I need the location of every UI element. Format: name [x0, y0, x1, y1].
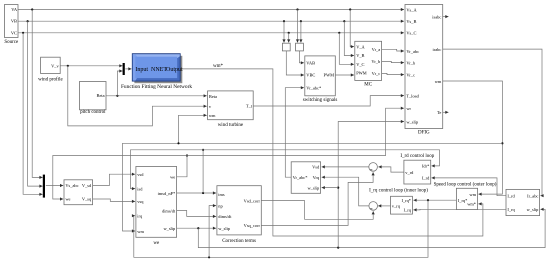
svg-text:Vr_c: Vr_c — [406, 72, 415, 77]
wire wm* reference from NNET Output down and across to speed loop control wm* input — [182, 69, 483, 236]
wire wm long feedback line to we-block wm input — [123, 143, 503, 231]
op sum junction d-axis — [369, 163, 378, 172]
wire we long line left down to Vs_abc dq block we input — [53, 156, 187, 200]
wire VA down to MC input V_A — [350, 10, 354, 47]
mux source voltages for dq transform — [43, 175, 45, 198]
svg-text:Vr_abc: Vr_abc — [406, 49, 419, 54]
svg-text:I_rq: I_rq — [404, 208, 412, 213]
svg-text:Vr_abc*: Vr_abc* — [306, 85, 321, 90]
wire VBC measure block output to switching signals VBC input — [286, 51, 304, 75]
svg-text:Vsd_corr: Vsd_corr — [244, 198, 261, 203]
wire VAB measure block output to switching signals VAB input — [299, 51, 304, 63]
svg-text:T_t: T_t — [246, 104, 253, 109]
wire isabc output stub of DFIG — [443, 16, 449, 18]
svg-text:I_rq*: I_rq* — [458, 198, 468, 203]
svg-text:dims/dt: dims/dt — [218, 214, 232, 219]
svg-text:Vs_B: Vs_B — [406, 19, 416, 24]
svg-text:Vr_c: Vr_c — [372, 71, 381, 76]
svg-text:VAB: VAB — [306, 61, 315, 66]
block VBC line voltage measure — [282, 43, 290, 51]
svg-text:w_slip: w_slip — [163, 226, 176, 231]
svg-text:Beta: Beta — [97, 93, 105, 98]
svg-text:wm*: wm* — [467, 202, 476, 207]
block speed loop controller (mirrored) — [456, 188, 477, 209]
node junction w_slip branch down — [197, 227, 199, 229]
svg-text:V_sd: V_sd — [82, 183, 92, 188]
svg-text:vsd: vsd — [137, 172, 144, 177]
wire wind speed v branch around pitch control to wind turbine v input — [68, 66, 207, 126]
wire Te output stub of DFIG — [443, 111, 449, 113]
block we computation (flux and slip estimator) — [136, 167, 177, 247]
svg-text:Idr*: Idr* — [422, 164, 429, 169]
svg-text:vsq: vsq — [137, 199, 144, 204]
svg-text:pitch control: pitch control — [80, 110, 106, 115]
svg-text:wind profile: wind profile — [38, 77, 63, 82]
node junction wm branch to wind turbine — [177, 142, 179, 144]
wire I_rq measured from rotor dq block to I_rq control loop — [413, 208, 506, 211]
node junction imsd branch — [202, 192, 204, 194]
node junction VB drop to mux — [27, 20, 29, 22]
wire Vr_a from MC to DFIG Vr_abc input — [382, 49, 404, 51]
wire wm from DFIG output down to speed loop control wm input — [443, 81, 503, 194]
svg-text:Speed loop control (outer loop: Speed loop control (outer loop) — [434, 183, 497, 188]
node junction we long line — [186, 154, 188, 156]
svg-text:v_rq: v_rq — [392, 204, 401, 209]
svg-text:VB: VB — [11, 19, 17, 24]
block wind turbine — [208, 91, 254, 128]
wire VA phase A from Source to DFIG Vs_A — [18, 9, 404, 11]
node junction wm feedback line — [501, 142, 503, 144]
wire Vr_b from MC to DFIG Vr_b input — [382, 61, 404, 62]
wire VC phase C from Source to DFIG Vs_C — [18, 32, 404, 34]
svg-text:Vr_b: Vr_b — [371, 59, 381, 64]
wire I_rq* from speed loop control to I_rq control loop — [413, 199, 456, 201]
node junction np riser — [208, 256, 210, 258]
svg-text:isabc: isabc — [432, 14, 441, 19]
block MC matrix converter — [355, 41, 382, 87]
svg-text:NNET: NNET — [151, 67, 167, 73]
node junction VA to VAB block — [296, 8, 298, 10]
svg-text:I_rq: I_rq — [507, 207, 515, 212]
svg-text:DFIG: DFIG — [418, 131, 430, 136]
svg-text:PWM: PWM — [356, 71, 367, 76]
svg-text:irq: irq — [137, 214, 143, 219]
svg-text:V_B: V_B — [356, 53, 364, 58]
wire d-axis sum output to Vsd input of Vr_abc* computation block — [322, 166, 369, 168]
block U1 Function Fitting Neural Network — [121, 54, 192, 90]
svg-text:I_rq*: I_rq* — [401, 198, 411, 203]
svg-text:V_C: V_C — [356, 62, 364, 67]
svg-text:isd: isd — [137, 186, 143, 191]
svg-text:I_rq control loop (inner loop): I_rq control loop (inner loop) — [369, 188, 428, 193]
block pitch control — [80, 82, 107, 115]
block I_rq control loop (mirrored PI controller) — [391, 196, 413, 214]
wire imsd_nP* riser from we-block output — [177, 192, 217, 194]
wire imsd long line left to isd input of we-block — [131, 150, 204, 189]
wire w_slip riser up to DFIG w_slip input — [338, 122, 404, 248]
svg-text:Function Fitting Neural Networ: Function Fitting Neural Network — [121, 84, 192, 90]
wire VB phase B from Source to DFIG Vs_B — [18, 20, 404, 22]
block VAB line voltage measure — [296, 43, 304, 51]
block Vs_abc to dq transform — [64, 180, 93, 205]
svg-text:VC: VC — [11, 30, 17, 35]
svg-text:V_A: V_A — [356, 44, 365, 49]
wire Beta from pitch control to wind turbine Beta input — [106, 95, 207, 97]
source block three-phase Source — [4, 5, 19, 45]
svg-text:Vr_abc*: Vr_abc* — [293, 175, 308, 180]
node junction VC to VBC block — [288, 32, 290, 34]
wire Vr_c from MC to DFIG Vr_c input — [382, 73, 404, 74]
block DFIG doubly fed induction generator — [405, 5, 443, 136]
node junction VA to MC V_A — [349, 8, 351, 10]
block switching signals generator — [303, 56, 338, 103]
svg-text:wind turbine: wind turbine — [218, 123, 244, 128]
wire VA drop to source mux input 1 — [32, 10, 42, 178]
node junction wind speed branch — [67, 65, 69, 67]
svg-text:ims: ims — [218, 192, 225, 197]
wire mux output to Vs_abc dq block — [46, 185, 63, 187]
wire VB drop to source mux input 2 — [28, 21, 43, 186]
wire v_rq from I_rq control loop to q-axis sum — [378, 205, 390, 207]
svg-text:Vrq: Vrq — [313, 175, 320, 180]
svg-text:Vs_A: Vs_A — [406, 7, 417, 12]
svg-text:VA: VA — [11, 7, 18, 12]
wire I_rd measured from rotor dq block to I_rd control loop — [432, 178, 507, 196]
svg-text:w_slip: w_slip — [218, 226, 231, 231]
node junction w_slip branch to Vr_abc* computation block — [337, 187, 339, 189]
node junction VC to MC V_C — [338, 32, 340, 34]
svg-text:I_rd: I_rd — [507, 194, 515, 199]
svg-text:Correction terms: Correction terms — [222, 239, 256, 244]
wire w_slip branch left into Vr_abc* computation block — [322, 187, 339, 189]
wire irabc from DFIG output down right side to Ir_abc input of rotor dq block — [443, 49, 542, 196]
block Vr_abc* computation (inverse dq transform, mirrored) — [291, 162, 320, 194]
svg-text:wm: wm — [137, 229, 144, 234]
svg-text:we: we — [153, 241, 160, 246]
svg-text:PWM: PWM — [324, 73, 335, 78]
svg-text:Source: Source — [4, 40, 19, 45]
wire mux output to neural network Input — [125, 68, 131, 70]
wire q-axis sum output to Vrq input of Vr_abc* computation block — [322, 177, 369, 206]
wire Vsd_corr from Correction terms to q-axis sum junction — [261, 201, 373, 220]
wire VA down into VAB measure block — [297, 10, 299, 43]
svg-text:I_rd control loop: I_rd control loop — [400, 154, 434, 159]
svg-text:Vs_C: Vs_C — [406, 31, 416, 36]
svg-text:we: we — [170, 175, 175, 180]
node junction I_rq* branch down — [427, 199, 429, 201]
svg-text:V_v: V_v — [51, 63, 59, 68]
op sum junction q-axis — [369, 202, 378, 211]
wire PWM from switching signals to MC — [335, 74, 354, 76]
node junction imsd long line — [202, 149, 204, 151]
svg-text:Vsq_corr: Vsq_corr — [244, 223, 261, 228]
svg-text:irabc: irabc — [433, 47, 442, 52]
svg-text:switching signals: switching signals — [303, 98, 338, 103]
svg-text:w_slip: w_slip — [406, 119, 419, 124]
svg-text:Vs_abc: Vs_abc — [65, 183, 78, 188]
wire V_sq to we-block vsq input — [93, 199, 136, 201]
svg-text:wm: wm — [209, 113, 216, 118]
svg-text:Te: Te — [437, 110, 441, 115]
node junction w_slip riser — [337, 247, 339, 249]
svg-text:VBC: VBC — [306, 73, 315, 78]
block I_rd control loop (mirrored PI controller) — [404, 160, 431, 184]
mux for neural network inputs — [123, 63, 125, 75]
node junction VB to VBC block — [283, 20, 285, 22]
wire wm feedback branch up to wind turbine wm input — [179, 115, 207, 143]
block Correction terms — [217, 186, 261, 245]
node junction VC drop to mux — [22, 32, 24, 34]
svg-text:wm: wm — [469, 192, 476, 197]
wire v_rd from I_rd control loop to d-axis sum — [378, 167, 404, 172]
svg-text:Vsd: Vsd — [312, 165, 320, 170]
block rotor current abc to dq transform (mirrored) — [506, 189, 540, 215]
node junction VB to VAB block — [300, 20, 302, 22]
svg-text:Output: Output — [166, 67, 183, 73]
wire w_slip from we-block to Correction terms — [177, 227, 217, 229]
node junction VA drop to mux — [31, 8, 33, 10]
wire we long line right up to DFIG wr input — [187, 108, 404, 155]
svg-text:V_sq: V_sq — [82, 197, 92, 202]
svg-text:w_slip: w_slip — [307, 185, 320, 190]
svg-text:v_rd: v_rd — [405, 170, 414, 175]
wire VC down into VBC measure block — [288, 33, 290, 43]
svg-text:dims/dt: dims/dt — [162, 208, 176, 213]
svg-text:wm*: wm* — [213, 64, 224, 69]
block wind profile — [38, 57, 63, 82]
wire VB down into VBC measure block — [283, 21, 285, 42]
wire V_sd to we-block vsd input — [93, 174, 136, 185]
wire Vr_abc* reference from computation block up to switching signals — [285, 88, 304, 178]
wire we output riser of we-block — [177, 156, 187, 177]
svg-text:Vr_b: Vr_b — [406, 60, 416, 65]
svg-text:imsd_nP*: imsd_nP* — [158, 191, 176, 196]
wire VB down into VAB measure block — [300, 21, 302, 42]
svg-text:T_load: T_load — [406, 93, 419, 98]
wire wind profile output to mux — [60, 65, 122, 67]
wire T_t torque from wind turbine to DFIG T_load input — [253, 96, 404, 106]
svg-text:Beta: Beta — [209, 94, 217, 99]
svg-text:Input: Input — [135, 67, 148, 73]
svg-text:wr: wr — [406, 106, 411, 111]
svg-text:Vr_a: Vr_a — [372, 47, 381, 52]
svg-text:wm: wm — [435, 79, 442, 84]
wire VC down to MC input V_C — [339, 33, 354, 65]
wire dims/dt from we-block to Correction terms — [177, 211, 217, 217]
svg-text:I_rd: I_rd — [422, 176, 430, 181]
wire w_slip bottom line to rotor dq block w_slip input — [198, 209, 545, 247]
wire np riser to Correction terms np input — [209, 206, 216, 258]
svg-text:w_slip: w_slip — [527, 207, 540, 212]
svg-text:Ir_abc: Ir_abc — [527, 194, 538, 199]
wire VC drop to source mux input 3 — [23, 33, 42, 195]
wire imsd riser to long line — [202, 150, 204, 193]
node junction Beta branch to mux — [116, 95, 118, 97]
wire Beta branch up to mux input 2 — [117, 71, 122, 96]
wire VB down to MC input V_B — [344, 21, 354, 55]
svg-text:we: we — [65, 197, 70, 202]
wire I_rq* bottom feedback line to we-block irq input — [134, 200, 428, 257]
wire imsd long line right to Idr* input of I_rd control loop — [203, 150, 439, 166]
node junction VB to MC V_B — [343, 20, 345, 22]
wire Vsq_corr from Correction terms to d-axis sum junction — [261, 172, 373, 225]
svg-text:MC: MC — [364, 82, 372, 87]
